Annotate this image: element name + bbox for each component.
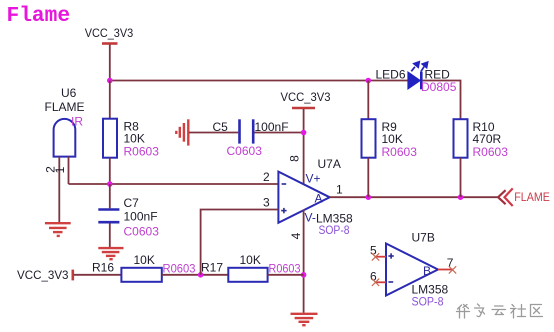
watermark 华为云社区: [457, 304, 543, 318]
pin 1: [68, 157, 70, 184]
LED LED6: [376, 62, 457, 94]
svg-text:D0805: D0805: [421, 80, 457, 94]
emission arrows: [411, 62, 427, 72]
node junction at C7/R8: [107, 181, 113, 187]
ground (under C7): [98, 248, 123, 259]
svg-text:C0603: C0603: [227, 144, 263, 158]
power port VCC_3V3 (bottom left): [17, 268, 73, 282]
capacitor C5: [189, 119, 304, 158]
ground (left of C5, rotated): [176, 119, 188, 145]
svg-text:FLAME: FLAME: [45, 100, 85, 114]
resistor R10: [454, 119, 509, 197]
wire output pin1 to FLAME port: [330, 196, 498, 198]
svg-text:SOP-8: SOP-8: [412, 295, 444, 309]
svg-text:SOP-8: SOP-8: [319, 223, 350, 237]
svg-text:R16: R16: [92, 261, 114, 275]
svg-text:10K: 10K: [240, 253, 261, 267]
svg-text:3: 3: [263, 196, 270, 210]
pin 6: [375, 281, 386, 283]
svg-text:100nF: 100nF: [124, 210, 158, 224]
resistor R8: [103, 81, 159, 185]
wire R17 to ground rail: [268, 274, 304, 276]
svg-text:LED6: LED6: [376, 68, 406, 82]
wire pin 4 to ground rail: [303, 210, 305, 313]
svg-text:Flame: Flame: [7, 4, 71, 28]
op-amp U7A: [263, 157, 353, 237]
node junction at R17/pin4: [301, 272, 307, 278]
svg-text:10K: 10K: [134, 253, 155, 267]
svg-text:FLAME: FLAME: [514, 190, 550, 204]
svg-text:1: 1: [336, 183, 343, 197]
wire sensor pin1 to U7A pin2: [69, 183, 279, 185]
node junction at R10 bottom: [458, 194, 464, 200]
为: [475, 304, 485, 317]
resistor R17: [201, 253, 301, 282]
wire VCC to pin 8: [303, 109, 305, 184]
ground (under U6): [45, 223, 71, 236]
ground (bottom middle): [291, 314, 318, 325]
svg-text:100nF: 100nF: [255, 120, 289, 134]
svg-text:C0603: C0603: [124, 225, 160, 239]
pin 2: [58, 157, 60, 222]
svg-text:R17: R17: [201, 261, 223, 275]
svg-text:C7: C7: [124, 196, 140, 210]
pin 5: [375, 256, 386, 258]
wire VCC to top rail: [109, 45, 111, 81]
svg-text:R0603: R0603: [382, 145, 418, 159]
svg-text:R0603: R0603: [269, 262, 301, 276]
svg-text:1: 1: [53, 166, 67, 173]
capacitor C7: [98, 184, 159, 247]
svg-text:8: 8: [288, 155, 302, 162]
svg-text:C5: C5: [213, 120, 229, 134]
svg-text:R0603: R0603: [473, 145, 509, 159]
svg-text:10K: 10K: [124, 132, 145, 146]
wire top rail: [110, 80, 408, 82]
svg-text:VCC_3V3: VCC_3V3: [17, 268, 69, 282]
node junction at C5: [301, 130, 307, 136]
svg-text:U6: U6: [61, 86, 77, 100]
svg-text:2: 2: [263, 170, 270, 184]
node junction at R9 bottom: [366, 194, 372, 200]
区: [531, 305, 543, 317]
op-amp U7B: [370, 231, 456, 309]
华: [457, 305, 470, 319]
svg-text:IR: IR: [71, 115, 83, 129]
svg-text:V-: V-: [305, 211, 316, 225]
node junction at R8 top: [107, 78, 113, 84]
resistor R16: [92, 253, 196, 282]
svg-text:A: A: [315, 192, 323, 206]
wire LED cathode to R10: [423, 81, 461, 120]
svg-text:4: 4: [289, 232, 303, 239]
power port VCC_3V3 (middle): [281, 90, 331, 108]
node junction divider tap: [198, 272, 204, 278]
power port VCC_3V3 (top left): [85, 26, 134, 44]
pin 7: [438, 269, 453, 271]
svg-text:V+: V+: [306, 172, 321, 186]
port FLAME: [498, 188, 550, 206]
svg-text:R0603: R0603: [163, 262, 196, 276]
wire VCC to R16: [74, 274, 122, 276]
node junction at R9 top: [366, 78, 372, 84]
wire R16 to R17: [162, 274, 229, 276]
云: [492, 306, 506, 315]
svg-text:VCC_3V3: VCC_3V3: [281, 90, 331, 104]
wire divider tap to U7A pin3: [201, 210, 279, 275]
svg-text:VCC_3V3: VCC_3V3: [85, 26, 134, 40]
svg-text:U7B: U7B: [412, 231, 435, 245]
svg-text:U7A: U7A: [318, 157, 341, 171]
svg-text:470R: 470R: [473, 132, 502, 146]
svg-text:B: B: [423, 264, 431, 278]
社: [511, 305, 526, 319]
sensor U6 FLAME IR: [44, 86, 85, 222]
svg-text:10K: 10K: [382, 132, 403, 146]
svg-text:R0603: R0603: [124, 145, 160, 159]
resistor R9: [362, 81, 418, 198]
